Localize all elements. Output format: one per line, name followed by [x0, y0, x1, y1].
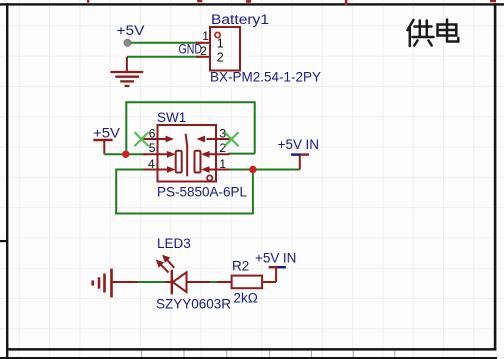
- svg-text:PS-5850A-6PL: PS-5850A-6PL: [157, 185, 248, 200]
- ground (LED return, rotated): [93, 269, 138, 298]
- svg-text:4: 4: [148, 157, 155, 171]
- label LED3: [157, 236, 191, 251]
- svg-text:+5V: +5V: [278, 137, 302, 152]
- label R2: [232, 259, 249, 274]
- svg-text:IN: IN: [306, 137, 320, 152]
- wire +5V (battery to connector pin 1): [128, 42, 203, 44]
- power flag +5V_IN (switch output): [278, 137, 319, 170]
- SW1 pin 4 (arrow + number): [144, 157, 176, 173]
- svg-text:+5V: +5V: [93, 124, 121, 140]
- ground symbol (battery GND): [110, 57, 143, 86]
- svg-text:+5V: +5V: [117, 22, 146, 38]
- svg-text:1: 1: [202, 29, 209, 43]
- svg-text:R2: R2: [232, 259, 249, 274]
- value PS-5850A-6PL: [157, 185, 248, 200]
- label Battery1: [211, 12, 269, 27]
- svg-text:BX-PM2.54-1-2PY: BX-PM2.54-1-2PY: [210, 70, 321, 85]
- svg-text:6: 6: [149, 127, 156, 141]
- value 2kΩ: [234, 291, 258, 306]
- switch SW1 body: [158, 125, 217, 182]
- net label GND: [179, 42, 203, 57]
- wire ground to LED: [137, 281, 166, 283]
- no-connect X on pin 6: [135, 132, 149, 146]
- junction dot at +5V / pin5 / loop: [122, 151, 129, 158]
- wire pin 1 to +5V_IN: [229, 169, 300, 171]
- svg-text:IN: IN: [283, 251, 297, 266]
- wire pin 4: [116, 169, 146, 171]
- Battery1 pin 1 (line, number, name, dot): [196, 29, 224, 51]
- Battery1 pin 2 (line, number, name): [196, 44, 224, 64]
- wire bottom loop right vertical: [252, 169, 254, 214]
- SW1 pin 3 (arrow + number): [197, 127, 230, 143]
- svg-text:5: 5: [149, 141, 156, 155]
- svg-text:2: 2: [217, 50, 224, 64]
- svg-text:2kΩ: 2kΩ: [234, 291, 258, 306]
- power flag +5V_IN (at R2): [255, 251, 296, 282]
- wire bottom loop horizontal: [115, 213, 254, 215]
- svg-text:SZYY0603R: SZYY0603R: [156, 297, 231, 312]
- wire LED to R2: [210, 281, 216, 283]
- wire loop right vertical: [254, 101, 256, 153]
- svg-text:Battery1: Battery1: [211, 12, 269, 27]
- svg-text:LED3: LED3: [157, 236, 191, 251]
- node +5V unconnected end (gray dot): [124, 39, 131, 46]
- value BX-PM2.54-1-2PY: [210, 70, 321, 85]
- connector Battery1 body: [210, 27, 240, 71]
- SW1 pin 2 (arrow + number): [201, 141, 230, 158]
- SW1 pin 1 (arrow + number): [201, 157, 230, 173]
- SW1 pin 6 (arrow + number): [144, 127, 175, 143]
- wire loop left vertical: [125, 102, 127, 154]
- wire bottom loop left vertical: [115, 169, 117, 214]
- junction dot pin1/loop: [249, 166, 256, 173]
- label SW1: [157, 110, 186, 125]
- no-connect X on pin 3: [225, 132, 239, 146]
- svg-text:1: 1: [219, 157, 226, 171]
- LED LED3: [156, 255, 232, 295]
- svg-text:SW1: SW1: [157, 110, 186, 125]
- wire loop right to pin 2: [229, 153, 255, 155]
- svg-text:+5V: +5V: [255, 251, 279, 266]
- resistor R2: [232, 276, 277, 289]
- power flag +5V (switch): [93, 124, 121, 154]
- net label +5V: [117, 22, 146, 38]
- text 供电 (power supply title, drawn strokes): [408, 20, 459, 47]
- wire +5V to junction and pin 5: [104, 153, 146, 155]
- value SZYY0603R: [156, 297, 231, 312]
- svg-text:2: 2: [200, 44, 207, 58]
- SW1 pin 5 (arrow + number): [144, 141, 176, 158]
- svg-text:2: 2: [219, 141, 226, 155]
- wire loop top: [125, 101, 254, 103]
- svg-text:1: 1: [217, 37, 224, 51]
- wire GND (ground to connector pin 2): [127, 56, 203, 58]
